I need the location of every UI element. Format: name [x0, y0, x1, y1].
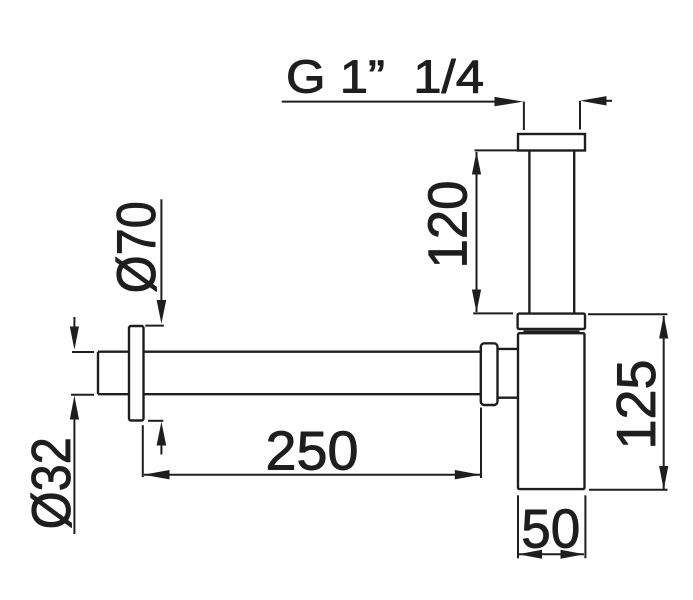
dim 120 up arrowhead	[472, 152, 481, 175]
dia 70 flange-bottom tick	[148, 420, 163, 422]
dim 50 line	[519, 553, 584, 555]
inlet stub top wall	[498, 348, 519, 350]
dia 32 pipe-bottom tick	[71, 394, 94, 396]
dia 32 pipe-top tick	[72, 351, 94, 353]
svg-text:Ø70: Ø70	[105, 201, 167, 293]
dia 70 flange-top tick	[145, 325, 164, 327]
dim 250 left extension line	[142, 425, 144, 477]
G left extension line down to flange	[523, 102, 525, 130]
vertical tailpipe right wall	[573, 151, 575, 314]
horizontal inlet pipe top wall	[98, 351, 481, 353]
dim 250 right arrowhead	[455, 470, 481, 479]
svg-text:G 1” 1/4: G 1” 1/4	[286, 51, 484, 103]
dim 250 right extension line	[480, 408, 482, 479]
G right left-pointing arrowhead	[580, 96, 607, 105]
gasket ring under top nut	[524, 330, 580, 332]
svg-text:50: 50	[521, 498, 580, 560]
G right extension line down to flange	[579, 101, 581, 130]
svg-text:Ø32: Ø32	[20, 437, 82, 529]
dia 70 up arrow tail	[160, 445, 162, 455]
dim 125 bottom extension line	[589, 489, 668, 491]
dia 70 leader line	[160, 199, 162, 301]
dia 32 down arrow tail	[73, 317, 75, 328]
svg-text:250: 250	[266, 419, 359, 481]
inlet pipe end cap	[97, 352, 99, 395]
wall rosette flange (d70)	[129, 326, 144, 421]
top mounting flange (G 1 1/4 nut)	[518, 134, 585, 151]
vertical tailpipe left wall	[528, 151, 530, 314]
dia 70 down arrowhead	[157, 300, 167, 324]
dia 70 up arrowhead	[157, 422, 167, 446]
dim 120 down arrowhead	[472, 290, 481, 313]
dim 250 line	[144, 474, 480, 476]
inlet compression nut	[481, 343, 498, 405]
horizontal inlet pipe bottom wall	[98, 393, 481, 395]
dim 50 right extension line	[584, 495, 586, 558]
inlet stub bottom wall	[498, 397, 519, 399]
G label leader line	[282, 101, 500, 103]
svg-text:125: 125	[605, 360, 667, 450]
dia 32 up arrow tail	[73, 419, 75, 535]
dia 32 down arrowhead	[70, 327, 79, 350]
bottle body	[518, 333, 585, 489]
dim 120 bottom extension line	[473, 312, 513, 314]
dim 50 right arrowhead	[561, 550, 585, 559]
svg-text:120: 120	[417, 181, 479, 269]
dim 125 down arrowhead	[659, 466, 668, 490]
dim 125 top extension line	[588, 313, 667, 315]
dim 125 up arrowhead	[659, 315, 668, 338]
G label right-pointing arrowhead	[495, 97, 524, 106]
dim 250 left arrowhead	[143, 470, 169, 479]
dia 32 up arrowhead	[70, 396, 79, 420]
bottle top nut	[518, 314, 585, 329]
dim 125 line	[663, 316, 665, 489]
G right arrow tail	[604, 100, 612, 102]
dim 120 line	[476, 152, 478, 312]
dim 120 top extension line	[475, 149, 519, 151]
dim 50 left extension line	[517, 495, 519, 558]
dim 50 left arrowhead	[518, 550, 542, 559]
